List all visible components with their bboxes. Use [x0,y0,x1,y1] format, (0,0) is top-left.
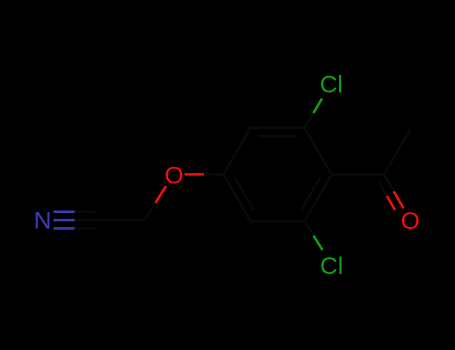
svg-text:O: O [164,162,183,189]
svg-text:O: O [401,208,420,235]
svg-text:N: N [34,208,52,235]
svg-text:Cl: Cl [320,71,343,98]
svg-text:Cl: Cl [320,253,343,280]
